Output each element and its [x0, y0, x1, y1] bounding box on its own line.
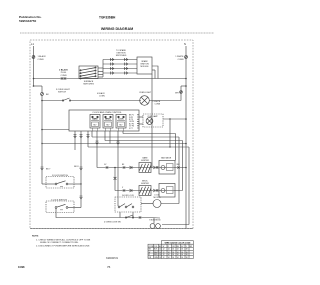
wire lock motor to bus — [161, 203, 179, 205]
svg-text:16: 16 — [181, 257, 183, 259]
svg-text:CLOCK AND OVEN CONTROL: CLOCK AND OVEN CONTROL — [92, 111, 122, 114]
door lock switch dashed box — [46, 201, 74, 213]
wire drop A from control — [74, 131, 76, 150]
svg-text:12: 12 — [163, 249, 165, 251]
svg-text:MOTOR: MOTOR — [153, 197, 161, 199]
switch door inside box1 — [55, 183, 57, 185]
terminal ticks control right edge — [137, 115, 139, 128]
connector on N line — [185, 56, 188, 59]
svg-text:CONN: CONN — [155, 104, 161, 106]
svg-text:14: 14 — [177, 249, 179, 251]
svg-text:WIRING DIAGRAM: WIRING DIAGRAM — [101, 27, 133, 31]
svg-text:TGF336BH: TGF336BH — [99, 15, 116, 19]
label under switch bank — [83, 80, 94, 86]
label bake igniter — [141, 157, 149, 163]
wire lamp drop — [169, 119, 171, 147]
motor door lock — [153, 200, 161, 208]
terminal labels column in control — [129, 115, 134, 130]
svg-text:14: 14 — [168, 257, 170, 259]
label under oven light — [153, 101, 161, 106]
gas valve box bake — [159, 161, 175, 175]
svg-text:18: 18 — [186, 254, 188, 256]
wire spark module output — [152, 66, 158, 79]
svg-text:IGNITER: IGNITER — [141, 183, 149, 185]
wire bottom border solid — [30, 228, 193, 230]
stub door lock terminal 1 — [119, 212, 121, 218]
svg-text:16: 16 — [172, 254, 174, 256]
svg-text:18: 18 — [186, 249, 188, 251]
bus wire 2 — [92, 136, 179, 138]
connector on drop B low — [80, 196, 83, 199]
svg-text:14: 14 — [159, 249, 161, 251]
svg-text:NOTE:: NOTE: — [32, 236, 39, 238]
svg-text:4 OVEN DOOR SW: 4 OVEN DOOR SW — [104, 222, 121, 224]
surface burner switch bank box — [79, 66, 98, 79]
wire drop I from control — [122, 131, 124, 134]
svg-text:CONN: CONN — [99, 96, 105, 98]
svg-text:14: 14 — [177, 254, 179, 256]
junction bake row — [114, 167, 116, 169]
switch on bottom wire — [126, 215, 133, 218]
note block text — [32, 236, 91, 248]
bus vertical 1 to gas valve — [175, 134, 177, 161]
junction branch down — [41, 100, 43, 102]
bus wire 1 — [123, 133, 176, 135]
svg-text:SWITCH: SWITCH — [58, 92, 66, 94]
svg-text:LOCK: LOCK — [118, 119, 124, 121]
bus wire 4 — [42, 143, 186, 145]
wires switch bank to spark rows — [98, 67, 103, 69]
wire oven light to N branch — [149, 100, 181, 102]
connector WH on branch — [180, 91, 183, 94]
lamp oven cavity — [146, 118, 153, 125]
svg-text:14: 14 — [159, 257, 161, 259]
label oven light switch — [56, 89, 71, 94]
wire drop G from control — [109, 131, 111, 144]
connector bottom row — [139, 216, 141, 218]
svg-text:1. CHECK WIRING WITH ALL CONT: 1. CHECK WIRING WITH ALL CONTROLS OFF TO… — [36, 239, 91, 242]
svg-text:SPARK: SPARK — [141, 60, 148, 63]
svg-text:SURE OF CORRECT CONNECTIONS.: SURE OF CORRECT CONNECTIONS. — [40, 242, 79, 244]
wire drop B from control — [80, 131, 82, 208]
bus vertical 3 to broil row — [182, 141, 184, 191]
svg-text:1 BLACK: 1 BLACK — [38, 55, 47, 58]
svg-text:BAKE: BAKE — [92, 118, 98, 121]
svg-text:6 LOCK SWITCH: 6 LOCK SWITCH — [51, 199, 67, 201]
spark row 2 wire and connectors — [103, 63, 137, 66]
svg-text:2 BLACK: 2 BLACK — [59, 69, 68, 72]
svg-text:2. DISCONNECT POWER BEFORE SE: 2. DISCONNECT POWER BEFORE SERVICING UNI… — [36, 246, 90, 248]
switch oven light — [63, 98, 70, 101]
svg-text:316034721: 316034721 — [106, 257, 119, 260]
bus vertical 4 to solenoid — [188, 147, 190, 225]
outer dashed cabinet border — [30, 40, 193, 229]
wire drop D from control — [91, 131, 93, 137]
wire bottom row — [148, 217, 160, 220]
svg-text:14: 14 — [168, 254, 170, 256]
oven lamp assembly dashed box — [143, 114, 163, 127]
bus wire 5 — [88, 146, 189, 148]
wire into box2 right — [68, 207, 81, 209]
switches inside door lock box — [118, 206, 120, 208]
broil igniter row wire — [114, 168, 116, 191]
relay K1 inside control — [90, 115, 100, 132]
wire drop H from control — [117, 131, 119, 197]
svg-text:16: 16 — [172, 257, 174, 259]
connector on broil row — [123, 189, 125, 191]
bake igniter element box — [139, 163, 151, 173]
label above spark connectors — [116, 49, 127, 57]
label lock motor — [153, 195, 161, 200]
junction L1 main — [33, 78, 35, 80]
connector after gas valve — [177, 166, 179, 168]
wire into box1 right — [68, 183, 81, 185]
spark row 4 wire and connectors — [103, 72, 137, 75]
broil igniter element box — [139, 186, 151, 196]
junction N branch top — [185, 85, 187, 87]
bus wire 3 — [105, 140, 183, 142]
junction N lamp — [185, 118, 187, 120]
relay K2 inside control — [103, 115, 113, 132]
wire spark module drop — [152, 69, 155, 71]
wire L1 vertical — [33, 46, 35, 86]
door lock motor dashed box — [115, 197, 141, 212]
bus vertical 2 to lock motor — [178, 137, 180, 204]
bake igniter row wire — [97, 167, 186, 169]
stub door lock terminal 2 — [132, 212, 134, 218]
wire N branch vertical — [180, 86, 182, 101]
wire branch vertical left — [41, 101, 43, 185]
svg-text:DOOR LOCK: DOOR LOCK — [122, 195, 135, 197]
svg-text:14: 14 — [159, 254, 161, 256]
wire control to lamp — [139, 116, 143, 118]
connector on bake row — [106, 166, 108, 168]
wire spark drop long — [151, 74, 153, 168]
label black conn small — [97, 92, 106, 98]
svg-text:14: 14 — [168, 249, 170, 251]
svg-text:12: 12 — [163, 257, 165, 259]
clock and oven control box — [69, 110, 139, 131]
oven door switch dashed box — [46, 177, 74, 189]
label gas valve — [161, 157, 172, 160]
svg-text:CONN: CONN — [38, 59, 44, 61]
svg-text:BROIL: BROIL — [105, 119, 111, 121]
wire lamp to N — [163, 118, 186, 120]
switch inside box2 — [55, 207, 57, 209]
wire main L1 horizontal — [34, 78, 187, 80]
wire drop E from control — [96, 131, 98, 168]
svg-text:TO SPARK: TO SPARK — [116, 49, 127, 52]
spark module box — [137, 57, 152, 74]
svg-text:SURFACE: SURFACE — [84, 80, 94, 83]
connector after broil igniter — [153, 189, 158, 192]
connector arrows on drops — [74, 135, 77, 138]
svg-text:16: 16 — [181, 254, 183, 256]
svg-text:8 SOLENOID: 8 SOLENOID — [149, 220, 161, 222]
svg-text:GAS VALVE: GAS VALVE — [161, 157, 172, 160]
svg-text:16: 16 — [172, 249, 174, 251]
gas valve box broil — [159, 184, 175, 198]
svg-text:N: N — [184, 42, 186, 46]
svg-text:CONN: CONN — [178, 59, 184, 61]
connector on drop B — [80, 167, 83, 170]
relay K3 inside control — [116, 115, 126, 132]
switches inside bank — [80, 67, 96, 79]
svg-text:14: 14 — [177, 257, 179, 259]
svg-text:WH: WH — [175, 93, 179, 95]
svg-text:WIRE GAUGE COLOR CODE: WIRE GAUGE COLOR CODE — [165, 242, 191, 245]
wire drop C from control — [87, 131, 89, 147]
connector after bake igniter — [153, 166, 158, 169]
junction N main wire — [185, 78, 187, 80]
svg-text:MODULE: MODULE — [140, 66, 149, 68]
lamp oven light — [140, 96, 150, 106]
wire N vertical — [185, 46, 187, 229]
connector P1 on L1 — [32, 56, 35, 59]
wire control to N lower — [139, 123, 143, 125]
wire oven light row — [42, 100, 141, 102]
svg-text:SWITCHES: SWITCHES — [116, 55, 127, 57]
solenoid coil pair — [150, 224, 155, 229]
svg-text:5 DOOR SWITCH: 5 DOOR SWITCH — [52, 175, 69, 177]
junction at clock feed — [41, 129, 43, 131]
wire into box1 left — [42, 183, 55, 185]
wire box2 bottom to bus — [56, 208, 148, 217]
wire bus to solenoid — [162, 224, 189, 226]
header rule — [20, 32, 214, 34]
svg-text:18: 18 — [186, 257, 188, 259]
svg-text:OVEN LIGHT: OVEN LIGHT — [139, 92, 152, 94]
connector on left branch — [41, 167, 44, 170]
svg-text:5995343750: 5995343750 — [19, 19, 36, 23]
svg-text:SWITCHES: SWITCHES — [83, 84, 94, 86]
wire color code table — [148, 241, 193, 259]
svg-text:76: 76 — [107, 265, 111, 269]
svg-text:10/98: 10/98 — [18, 265, 25, 269]
svg-text:CONN: CONN — [61, 75, 67, 77]
wire to clock control — [42, 129, 69, 131]
svg-text:12: 12 — [163, 254, 165, 256]
connector BK on branch — [41, 93, 44, 96]
svg-text:IGNITER: IGNITER — [141, 160, 149, 162]
wire lock motor left — [141, 203, 153, 205]
svg-text:V P7: V P7 — [129, 128, 133, 130]
svg-text:16: 16 — [181, 249, 183, 251]
header publication number text — [19, 15, 42, 23]
label broil igniter — [141, 181, 149, 186]
wire drop F from control — [104, 131, 106, 141]
spark row 3 wire and connectors — [103, 67, 137, 70]
junction L1 branch — [33, 85, 35, 87]
connector P3 on main wire — [61, 77, 66, 79]
spark row 1 wire and connectors — [103, 58, 137, 61]
